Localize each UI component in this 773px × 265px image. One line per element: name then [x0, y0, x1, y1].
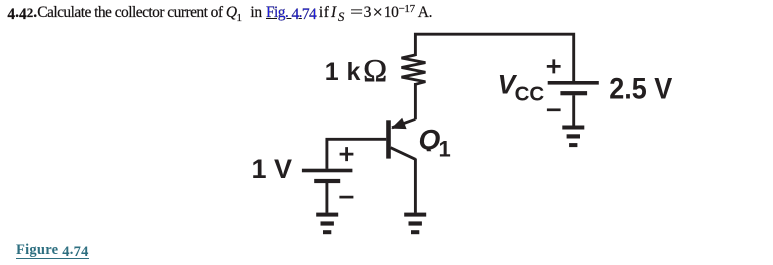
svg-text:2.5 V: 2.5 V [609, 73, 672, 106]
figure caption link: Figure 4.74 [16, 244, 89, 259]
wire: battery V1 to ground [325, 183, 328, 213]
wire: battery VCC to ground [572, 95, 575, 126]
transistor Q1 collector diagonal with arrow pointing into base [392, 119, 415, 128]
battery V1 1V negative plate [314, 179, 340, 183]
svg-text:Ω: Ω [363, 52, 387, 88]
svg-text:1 k: 1 k [325, 58, 361, 86]
transistor Q1 emitter diagonal [391, 148, 416, 160]
wire: top supply rail (resistor top to VCC battery top lead) [415, 34, 573, 81]
battery VCC positive plate [548, 81, 599, 85]
ground (battery V1) [316, 213, 338, 235]
wire: collector wire from resistor bottom to Q1 [414, 83, 417, 119]
svg-text:CC: CC [515, 82, 545, 105]
problem statement text [0, 2, 432, 22]
battery VCC negative plate [560, 91, 587, 95]
ground (emitter of Q1) [404, 213, 426, 235]
wire: base wire from 1V battery to Q1 base [327, 139, 386, 169]
wire: emitter wire from Q1 to ground [414, 159, 417, 213]
transistor Q1 (base bar) [386, 120, 391, 158]
svg-text:Q: Q [419, 124, 441, 155]
label: + (battery V1) [340, 147, 354, 161]
label: - (battery V1) [339, 196, 353, 199]
svg-text:1 V: 1 V [252, 154, 293, 184]
svg-text:1: 1 [439, 136, 451, 161]
resistor R1 1 kOhm (zigzag) [402, 55, 426, 84]
label: + (battery VCC) [547, 59, 561, 73]
battery V1 1V positive plate [302, 169, 353, 173]
label: - (battery VCC) [547, 108, 561, 111]
ground (battery VCC) [562, 126, 584, 148]
